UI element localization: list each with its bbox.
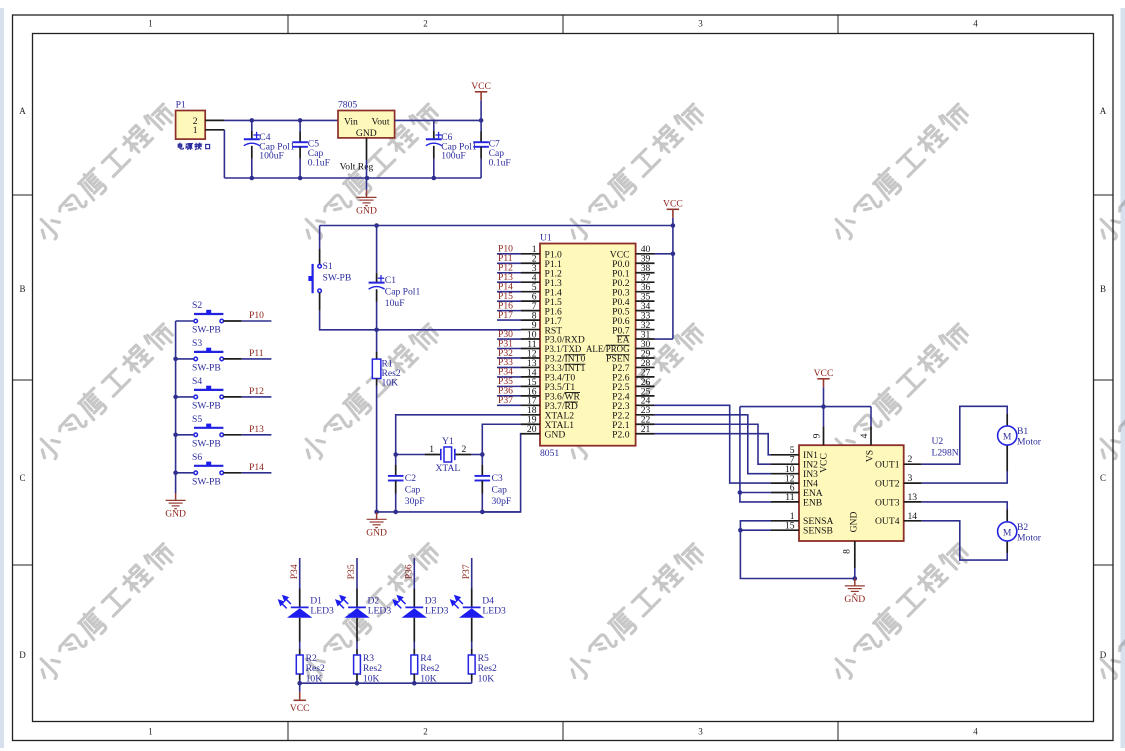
U1 pin 22 [636,423,655,425]
wire OUT2 to motor B1 bottom [1006,445,1008,471]
U1 pin 33 [636,319,655,321]
wire/net P32 [497,357,521,359]
svg-text:C3: C3 [492,473,503,484]
capacitor C4 (Cap Pol1 100uF) [251,120,253,131]
wire/net P12 [497,272,521,274]
svg-text:C: C [1100,473,1106,483]
svg-text:SW-PB: SW-PB [192,362,221,373]
wire 7805 Vout to VCC column [395,119,482,121]
U1 pin 39 [636,262,655,264]
svg-text:C1: C1 [385,275,396,286]
svg-text:L298N: L298N [932,448,959,459]
svg-text:SW-PB: SW-PB [192,325,221,336]
svg-text:2: 2 [423,726,428,736]
regulator 7805 [338,111,395,138]
svg-text:13: 13 [908,492,918,503]
wire/net P17 [497,319,521,321]
resistor R2 Res2 10K [299,649,301,655]
U1 pin 13 [521,366,540,368]
P1 pin 1 stub [205,129,224,131]
U2 pin 4 (top VS) [870,426,872,445]
svg-text:10uF: 10uF [385,298,405,309]
svg-text:S3: S3 [192,338,202,349]
svg-text:1: 1 [193,125,198,136]
wire U1 GND pin down [482,434,521,512]
switch S6 SW-PB [176,472,196,474]
svg-text:C: C [19,473,25,483]
svg-text:S2: S2 [192,300,202,311]
U2 pin 9 (top VCC) [823,426,825,445]
svg-text:4: 4 [973,19,978,29]
svg-text:OUT3: OUT3 [875,497,900,508]
U1 pin 8 [521,319,540,321]
U2 pin 10 IN3 [771,473,799,475]
U1 pin 36 [636,291,655,293]
svg-text:2: 2 [462,444,467,455]
svg-text:30pF: 30pF [492,496,512,507]
wire VCC rail above U1 [320,225,673,227]
capacitor C1 (Cap Pol1 10uF) [376,226,378,273]
U1 pin 38 [636,272,655,274]
svg-text:GND: GND [165,509,186,520]
svg-text:GND: GND [356,128,377,139]
svg-text:Y1: Y1 [442,436,454,447]
wire/net P34 [497,376,521,378]
svg-text:2: 2 [423,19,428,29]
svg-text:VCC: VCC [471,81,491,92]
svg-text:ENB: ENB [803,497,822,508]
resistor R1 (Res2 10k) [376,330,378,352]
svg-text:P37: P37 [461,564,472,579]
svg-text:A: A [19,106,26,116]
U1 pin 2 [521,262,540,264]
left window edge strip [0,8,4,748]
wire VCC rail over U2 [740,406,871,408]
wire/net P35 [497,385,521,387]
U1 pin 10 [521,338,540,340]
U1 pin 35 [636,300,655,302]
U2 pin 11 ENB [771,501,799,503]
svg-text:3: 3 [698,19,703,29]
wire P2.0 to IN1 [655,434,772,455]
svg-text:Cap: Cap [405,485,421,496]
wire/net P10 [497,253,521,255]
svg-text:LED3: LED3 [310,605,334,616]
wire OUT4 to motor B2 bottom [1006,541,1008,553]
svg-text:SENSB: SENSB [803,526,833,537]
svg-text:100uF: 100uF [259,151,284,162]
svg-text:20: 20 [527,424,537,435]
wire P2.1 to IN2 [655,424,772,464]
U1 pin 6 [521,300,540,302]
wire/net P37 [497,404,521,406]
U2 pin 5 IN1 [771,454,799,456]
switch bank bus [175,321,177,493]
svg-text:S4: S4 [192,376,202,387]
switch S4 SW-PB [176,396,196,398]
svg-text:A: A [1100,106,1107,116]
wire top rail left (to 7805 Vin) [224,119,338,121]
U1 pin 24 [636,404,655,406]
svg-text:Volt Reg: Volt Reg [340,161,374,172]
svg-text:LED3: LED3 [482,605,506,616]
svg-text:8: 8 [842,549,853,554]
wire P1.1 down to bottom rail [223,130,225,178]
motor B2 [998,522,1017,541]
U1 pin 23 [636,414,655,416]
wire/net P16 [497,310,521,312]
svg-text:OUT2: OUT2 [875,479,900,490]
junction R1/caps ground rail [374,510,379,515]
power port VCC (LED rail, inverted) [299,683,301,692]
U1 pin 9 [521,329,540,331]
wire/net P36 [413,558,415,589]
wire/net P36 [497,395,521,397]
wire/net P37 [471,558,473,589]
U1 pin 40 [636,253,655,255]
wire bottom rail [224,177,481,179]
svg-text:P34: P34 [289,564,300,579]
svg-text:15: 15 [785,520,795,531]
svg-text:B2: B2 [1017,522,1028,533]
U2 pin 3 OUT2 [904,482,922,484]
junction dots power rails [250,118,255,123]
svg-text:SW-PB: SW-PB [323,273,352,284]
svg-text:B: B [19,284,25,294]
wire/net P15 [497,300,521,302]
LED D2 LED3 [356,589,358,608]
svg-text:GND: GND [366,528,387,539]
U2 pin 1 SENSA [771,520,799,522]
svg-text:M: M [1003,432,1012,443]
U1 pin 32 [636,329,655,331]
U2 pin 6 ENA [771,492,799,494]
junction RST node [374,328,379,333]
svg-text:P10: P10 [249,310,264,321]
svg-text:VCC: VCC [663,198,683,209]
wire ENA/ENB to VCC rail [740,407,771,502]
svg-text:LED3: LED3 [425,605,449,616]
U1 pin 37 [636,281,655,283]
svg-text:10K: 10K [382,377,399,388]
svg-text:3: 3 [698,726,703,736]
svg-text:VCC: VCC [814,368,834,379]
switch S5 SW-PB [176,434,196,436]
svg-text:S6: S6 [192,452,202,463]
svg-text:LED3: LED3 [368,605,392,616]
wire/net P35 [356,558,358,589]
svg-text:0.1uF: 0.1uF [308,157,330,168]
wire P2.3 to IN4 [655,405,772,483]
svg-text:4: 4 [859,433,870,438]
svg-text:SW-PB: SW-PB [192,438,221,449]
U1 pin 12 [521,357,540,359]
svg-text:P35: P35 [346,564,357,579]
wire XTAL2 to crystal [396,415,521,455]
switch S2 SW-PB [176,320,196,322]
U1 pin 4 [521,281,540,283]
svg-text:8051: 8051 [540,448,559,459]
svg-text:100uF: 100uF [441,151,466,162]
U2 pin 2 OUT1 [904,463,922,465]
svg-text:VCC: VCC [290,703,310,714]
svg-text:Cap: Cap [492,485,508,496]
svg-text:2: 2 [908,454,913,465]
U1 pin 17 [521,404,540,406]
U2 pin 14 OUT4 [904,520,922,522]
svg-text:11: 11 [785,492,794,503]
svg-text:S5: S5 [192,414,202,425]
power port VCC (U2) [817,379,829,388]
U1 pin 30 [636,348,655,350]
wire/net P30 [497,338,521,340]
U1 pin 27 [636,376,655,378]
wire/net P31 [497,348,521,350]
svg-text:P12: P12 [249,386,264,397]
svg-text:4: 4 [973,726,978,736]
svg-text:P37: P37 [498,395,513,406]
svg-text:1: 1 [148,19,153,29]
wire/net P11 [497,262,521,264]
motor B1 [998,426,1017,445]
capacitor C7 (Cap 0.1uF) [480,120,482,131]
U1 pin 3 [521,272,540,274]
U1 pin 1 [521,253,540,255]
svg-text:GND: GND [849,512,860,533]
wire P2.2 to IN3 [655,415,772,474]
wire/net P12 [242,396,272,398]
svg-text:P17: P17 [498,310,513,321]
U1 pin 29 [636,357,655,359]
ground symbol (U2) [845,579,865,595]
svg-text:10K: 10K [478,673,495,684]
U1 pin 14 [521,376,540,378]
capacitor C3 (Cap 30pF) [481,455,483,466]
U1 pin 16 [521,395,540,397]
crystal Y1 (XTAL) [393,452,398,457]
svg-text:C2: C2 [405,473,416,484]
svg-text:D: D [1100,650,1107,660]
svg-text:U2: U2 [932,436,944,447]
svg-text:14: 14 [908,511,918,522]
U1 pin 11 [521,348,540,350]
svg-text:U1: U1 [540,233,552,244]
svg-text:OUT4: OUT4 [875,516,900,527]
switch S1 (SW-PB vertical) [319,226,321,250]
svg-text:SW-PB: SW-PB [192,400,221,411]
wire/net P14 [242,472,272,474]
LED D1 LED3 [299,589,301,608]
P1 label 电源接口 [178,143,209,149]
svg-text:Motor: Motor [1017,532,1042,543]
svg-text:P14: P14 [249,462,264,473]
svg-text:Motor: Motor [1017,436,1042,447]
switch S3 SW-PB [176,358,196,360]
wire/net P14 [497,291,521,293]
power port VCC (U1) [667,209,679,218]
LED D4 LED3 [471,589,473,608]
wire/net P13 [242,434,272,436]
capacitor C6 (Cap Pol1 100uF) [433,120,435,131]
U1 pin 18 [521,414,540,416]
wire/net P33 [497,366,521,368]
svg-text:P13: P13 [249,424,264,435]
resistor R4 Res2 10K [413,649,415,655]
wire/net P13 [497,281,521,283]
svg-text:Vout: Vout [372,116,390,127]
U1 pin 31 [636,338,655,340]
U1 pin 28 [636,366,655,368]
resistor R5 Res2 10K [471,649,473,655]
wire XTAL1 to crystal [482,424,521,454]
right window edge strip [1121,8,1125,748]
svg-text:P2.0: P2.0 [612,429,630,440]
svg-text:P36: P36 [404,564,415,579]
svg-text:0.1uF: 0.1uF [489,157,511,168]
svg-text:P1: P1 [176,100,186,111]
svg-text:VCC: VCC [819,453,830,473]
U2 pin 13 OUT3 [904,501,922,503]
U2 pin 8 (bottom GND) [854,541,856,568]
svg-text:GND: GND [356,206,377,217]
svg-text:3: 3 [908,473,913,484]
ground symbol (switch bank) [166,493,186,509]
svg-text:GND: GND [844,594,865,605]
P1 pin 2 stub [205,119,224,121]
U1 pin 26 [636,385,655,387]
svg-text:D: D [19,650,26,660]
wire/net P10 [242,320,272,322]
svg-text:OUT1: OUT1 [875,460,900,471]
wire LED bottom rail [300,682,472,684]
svg-text:SW-PB: SW-PB [192,476,221,487]
svg-text:B1: B1 [1017,426,1028,437]
op IC U1 8051 body [540,244,636,446]
U2 pin 12 IN4 [771,482,799,484]
svg-text:1: 1 [148,726,153,736]
resistor R3 Res2 10K [356,649,358,655]
LED D3 LED3 [413,589,415,608]
U1 pin 19 [521,423,540,425]
ground symbol (7805) [366,178,368,190]
driver IC U2 L298N body [799,445,904,541]
svg-text:7805: 7805 [338,100,357,111]
svg-text:GND: GND [545,429,566,440]
wire SENSA/SENSB to ground rail [740,521,854,579]
wire/net P11 [242,358,272,360]
power port VCC (supply) [475,92,487,101]
svg-text:S1: S1 [323,261,333,272]
ground symbol (osc) [367,512,387,528]
7805 GND pin [366,138,368,160]
svg-text:M: M [1003,528,1012,539]
svg-text:XTAL: XTAL [435,463,460,474]
wire/net P34 [299,558,301,589]
svg-text:Vin: Vin [344,116,358,127]
U2 pin 15 SENSB [771,529,799,531]
U1 pin 7 [521,310,540,312]
svg-text:1: 1 [429,444,434,455]
U1 pin 21 [636,433,655,435]
svg-text:P11: P11 [249,348,264,359]
svg-text:30pF: 30pF [405,496,425,507]
svg-text:VS: VS [864,450,875,462]
connector P1 [176,111,206,140]
U1 pin 15 [521,385,540,387]
U1 pin 5 [521,291,540,293]
U2 pin 7 IN2 [771,463,799,465]
U1 pin 20 [521,433,540,435]
U1 pin 34 [636,310,655,312]
U1 pin 25 [636,395,655,397]
capacitor C5 (Cap 0.1uF) [299,120,301,131]
wire osc ground rail [377,511,521,513]
svg-text:Cap Pol1: Cap Pol1 [385,287,421,298]
svg-text:9: 9 [812,433,823,438]
svg-text:21: 21 [641,424,651,435]
svg-text:B: B [1100,284,1106,294]
wire VCC column to pin40/EA [672,226,674,340]
capacitor C2 (Cap 30pF) [395,455,397,466]
wire OUT1 to motor B1 top [922,406,1008,464]
wire OUT3 to motor B2 top [922,502,1008,510]
